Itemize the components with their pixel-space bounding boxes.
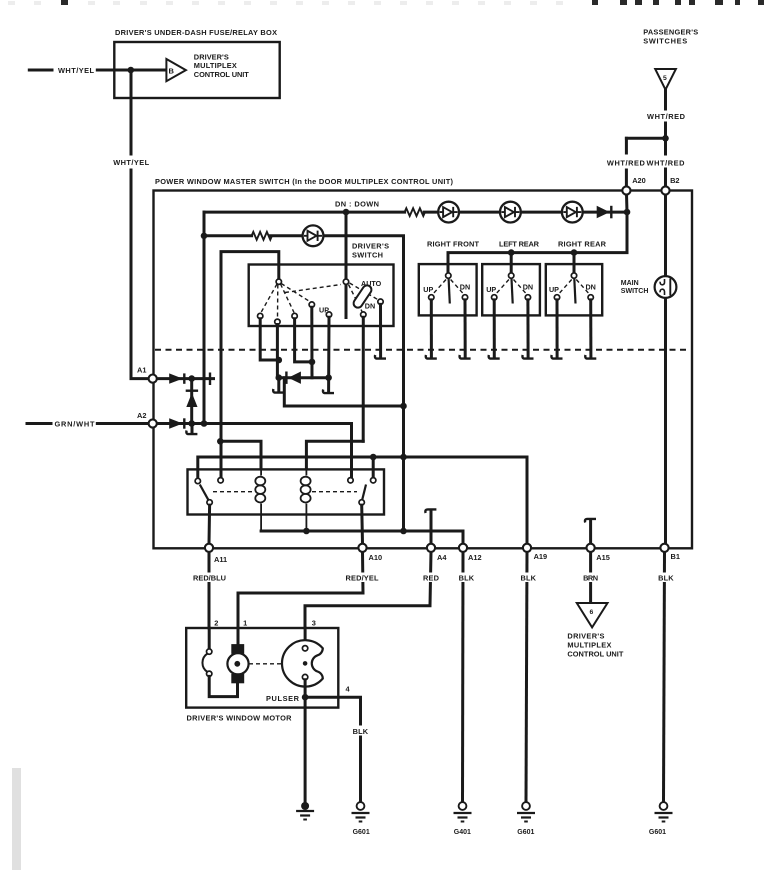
svg-text:A1: A1 — [137, 366, 146, 375]
svg-text:RIGHT REAR: RIGHT REAR — [558, 240, 607, 249]
svg-text:2: 2 — [214, 619, 218, 628]
svg-text:SWITCH: SWITCH — [621, 288, 649, 295]
svg-text:BLK: BLK — [353, 727, 369, 736]
svg-text:A19: A19 — [534, 552, 548, 561]
svg-text:DRIVER'S WINDOW MOTOR: DRIVER'S WINDOW MOTOR — [187, 714, 293, 723]
svg-text:DRIVER'S UNDER-DASH FUSE/RELAY: DRIVER'S UNDER-DASH FUSE/RELAY BOX — [115, 28, 277, 37]
svg-text:B: B — [169, 66, 175, 75]
svg-text:UP: UP — [423, 285, 433, 294]
svg-text:BLK: BLK — [658, 574, 674, 583]
svg-text:B1: B1 — [671, 552, 680, 561]
svg-text:1: 1 — [243, 619, 247, 628]
svg-text:WHT/RED: WHT/RED — [607, 158, 646, 167]
svg-text:RED/BLU: RED/BLU — [193, 574, 226, 583]
svg-text:SWITCHES: SWITCHES — [643, 37, 687, 46]
svg-text:DRIVER'S: DRIVER'S — [352, 242, 389, 251]
svg-text:A2: A2 — [137, 411, 146, 420]
svg-text:WHT/YEL: WHT/YEL — [58, 66, 94, 75]
svg-text:RED/YEL: RED/YEL — [346, 574, 379, 583]
svg-text:MULTIPLEX: MULTIPLEX — [194, 61, 237, 70]
svg-text:BLK: BLK — [521, 574, 537, 583]
svg-text:3: 3 — [312, 619, 316, 628]
svg-text:G601: G601 — [517, 829, 534, 836]
svg-text:WHT/RED: WHT/RED — [647, 158, 686, 167]
svg-text:WHT/YEL: WHT/YEL — [113, 158, 149, 167]
svg-text:A12: A12 — [468, 553, 482, 562]
svg-text:RIGHT FRONT: RIGHT FRONT — [427, 240, 479, 249]
svg-text:MULTIPLEX: MULTIPLEX — [567, 641, 611, 650]
svg-text:G601: G601 — [649, 829, 666, 836]
svg-text:PULSER: PULSER — [266, 694, 300, 703]
svg-text:DN: DN — [460, 283, 470, 292]
svg-text:SWITCH: SWITCH — [352, 251, 383, 260]
svg-text:A11: A11 — [214, 555, 227, 564]
svg-text:CONTROL UNIT: CONTROL UNIT — [194, 70, 249, 79]
svg-text:WHT/RED: WHT/RED — [647, 112, 686, 121]
svg-text:B2: B2 — [670, 176, 679, 185]
svg-text:A10: A10 — [369, 553, 383, 562]
svg-text:RED: RED — [423, 574, 440, 583]
svg-text:AUTO: AUTO — [361, 279, 382, 288]
svg-text:A20: A20 — [632, 176, 646, 185]
svg-text:G401: G401 — [454, 829, 471, 836]
svg-text:MAIN: MAIN — [621, 280, 639, 287]
svg-text:BLK: BLK — [459, 574, 475, 583]
svg-text:POWER WINDOW MASTER SWITCH (In: POWER WINDOW MASTER SWITCH (In the DOOR … — [155, 177, 454, 186]
svg-text:PASSENGER'S: PASSENGER'S — [643, 28, 698, 37]
svg-text:GRN/WHT: GRN/WHT — [55, 420, 95, 429]
svg-text:LEFT REAR: LEFT REAR — [499, 240, 540, 249]
svg-text:BRN: BRN — [583, 574, 598, 583]
svg-text:5: 5 — [663, 75, 667, 82]
svg-text:6: 6 — [590, 609, 594, 616]
svg-text:G601: G601 — [353, 829, 370, 836]
svg-text:DN: DN — [365, 302, 375, 311]
svg-text:CONTROL UNIT: CONTROL UNIT — [567, 650, 623, 659]
svg-text:A15: A15 — [596, 553, 610, 562]
svg-text:A4: A4 — [437, 553, 447, 562]
svg-text:DN : DOWN: DN : DOWN — [335, 200, 379, 209]
svg-text:DRIVER'S: DRIVER'S — [567, 632, 604, 641]
